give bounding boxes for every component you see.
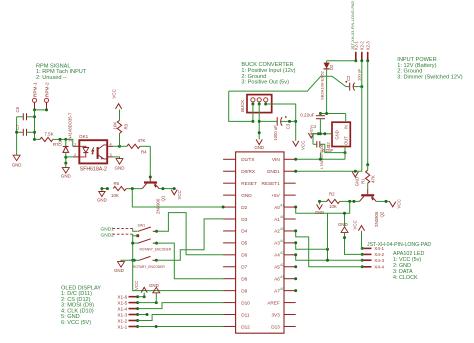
wire regulator GND row xyxy=(311,133,332,135)
svg-text:R2: R2 xyxy=(329,192,335,197)
svg-text:IN: IN xyxy=(344,125,349,129)
svg-text:A3: A3 xyxy=(274,241,280,246)
buck pin 1 xyxy=(251,98,255,102)
svg-text:VCC: VCC xyxy=(301,141,306,150)
svg-text:A7: A7 xyxy=(274,288,280,293)
svg-text:GND1: GND1 xyxy=(101,226,115,232)
svg-text:Q1: Q1 xyxy=(161,195,166,201)
rotary encoder common xyxy=(136,234,139,237)
connector pin X4-3 xyxy=(364,259,372,261)
svg-text:R1: R1 xyxy=(361,178,366,184)
connector pin X1-6 xyxy=(129,296,138,298)
svg-text:D3: D3 xyxy=(241,217,247,222)
wire left cap rail xyxy=(16,117,18,155)
IC pin GND1 xyxy=(284,170,296,172)
svg-text:3: Dimmer (Switched 12V): 3: Dimmer (Switched 12V) xyxy=(397,74,462,80)
capacitor C7 xyxy=(22,129,24,136)
svg-text:GND: GND xyxy=(338,222,348,227)
ground at X1-5 xyxy=(138,302,157,304)
svg-text:2N3906: 2N3906 xyxy=(374,211,379,227)
wire X2-2 ground rail xyxy=(296,61,362,172)
IC pin A1 xyxy=(284,218,296,220)
buck pin 2 xyxy=(257,98,261,102)
svg-text:0.1uF: 0.1uF xyxy=(322,148,334,153)
resistor R1 47K xyxy=(367,165,369,170)
svg-text:X2-3: X2-3 xyxy=(366,41,371,51)
connector pin X1-2 xyxy=(129,320,138,322)
svg-text:A6: A6 xyxy=(274,277,280,282)
voltage regulator U$2 L78L05 box xyxy=(332,122,350,146)
wire RPM pins tie xyxy=(35,109,47,111)
resistor R7 7.5K xyxy=(35,138,41,140)
wire 5V rail to VIN xyxy=(296,158,345,160)
buck pin 3 xyxy=(264,98,268,102)
svg-text:VCC: VCC xyxy=(397,199,402,208)
svg-text:C6: C6 xyxy=(15,106,20,112)
svg-text:R3: R3 xyxy=(123,123,128,129)
connector pin X4-2 xyxy=(364,253,372,255)
svg-text:GND2: GND2 xyxy=(101,232,115,238)
ground at encoder xyxy=(121,260,134,261)
svg-text:D4: D4 xyxy=(241,229,247,234)
svg-text:D11: D11 xyxy=(241,312,250,317)
ground on X2-2 rail xyxy=(352,172,358,177)
svg-text:D12: D12 xyxy=(241,324,250,329)
wire encoder button to D3 xyxy=(156,219,223,260)
svg-text:D9: D9 xyxy=(241,288,247,293)
transistor Q2 2N3906 xyxy=(367,189,369,194)
resistor R6 10K at Q1 xyxy=(102,188,108,190)
svg-text:X4-4: X4-4 xyxy=(374,265,384,270)
svg-text:+5V: +5V xyxy=(271,193,280,198)
optocoupler OK1 SFH618A-2 box xyxy=(79,140,107,163)
OK1 internal phototransistor xyxy=(97,147,99,159)
svg-text:A5: A5 xyxy=(274,265,280,270)
OK1 internal LED xyxy=(79,145,86,148)
svg-text:3V3: 3V3 xyxy=(271,312,280,317)
ground at regulator xyxy=(308,133,314,138)
connector pin X2-2 xyxy=(361,52,363,61)
svg-text:C4: C4 xyxy=(311,124,317,129)
svg-text:1N4148DO35-7: 1N4148DO35-7 xyxy=(68,112,73,142)
svg-text:GND: GND xyxy=(97,197,107,202)
wire buck pin1 to 12V rail xyxy=(252,104,254,121)
svg-text:D1/TX: D1/TX xyxy=(241,157,255,162)
svg-text:X1-4: X1-4 xyxy=(117,306,127,311)
connector pin X1-4 xyxy=(129,308,138,310)
svg-text:D7: D7 xyxy=(241,265,247,270)
wire OK1 pin2 to D1 node xyxy=(66,156,73,158)
IC pin A5 xyxy=(284,266,296,268)
svg-text:3: 3 xyxy=(110,153,112,157)
svg-text:VCC: VCC xyxy=(111,89,116,98)
IC pin +5V xyxy=(284,194,296,196)
svg-text:OK1: OK1 xyxy=(79,134,89,139)
connector pin RPM-2 xyxy=(44,98,48,102)
svg-text:A0: A0 xyxy=(274,205,280,210)
svg-text:SB2H100-E3/52: SB2H100-E3/52 xyxy=(319,70,324,100)
svg-text:A4: A4 xyxy=(274,253,280,258)
svg-text:A5: A5 xyxy=(280,227,284,231)
IC pin VIN xyxy=(284,158,296,160)
wire encoder B to D8 xyxy=(157,243,224,279)
svg-text:D0/RX: D0/RX xyxy=(241,169,256,174)
svg-text:A0: A0 xyxy=(280,287,284,291)
IC pin RESET xyxy=(223,182,236,184)
wire OK1 pin4 node xyxy=(113,145,119,147)
IC pin D2 xyxy=(223,206,236,208)
svg-text:D5: D5 xyxy=(241,241,247,246)
svg-text:VCC: VCC xyxy=(134,281,139,290)
svg-text:SW1: SW1 xyxy=(138,223,146,227)
wire D2 to regulator input xyxy=(326,76,328,113)
svg-text:7.5K: 7.5K xyxy=(44,131,53,136)
svg-text:ROTARY_ENCODER: ROTARY_ENCODER xyxy=(140,248,172,252)
svg-text:D13: D13 xyxy=(271,324,280,329)
svg-text:GND: GND xyxy=(149,283,159,288)
svg-text:GND: GND xyxy=(315,210,324,215)
svg-text:GND: GND xyxy=(61,173,71,178)
wire buck pin3 5V out xyxy=(266,104,296,141)
IC pin D0/RX xyxy=(223,170,236,172)
wire A6 stub dot xyxy=(294,277,297,280)
svg-text:4: 4 xyxy=(110,142,112,146)
svg-text:A6: A6 xyxy=(280,215,284,219)
svg-text:C2: C2 xyxy=(346,75,351,81)
svg-text:RESET: RESET xyxy=(241,181,257,186)
IC pin D6 xyxy=(223,254,236,256)
svg-text:A1: A1 xyxy=(280,275,284,279)
OK1 internal light bolt xyxy=(92,147,94,154)
rotary encoder SW1 pole B xyxy=(138,239,151,243)
wire X1-4 to D10 xyxy=(138,303,224,309)
IC pin 3V3 xyxy=(284,314,296,316)
capacitor C5 0.1uF xyxy=(316,141,318,147)
capacitor C3 1000uF xyxy=(259,120,277,122)
svg-text:RPM-2: RPM-2 xyxy=(45,82,50,97)
connector pin X4-1 xyxy=(364,247,372,249)
wire A0 to junction cluster xyxy=(296,207,328,213)
VCC at X1-6 xyxy=(138,296,145,298)
wire X1-2 to D11 xyxy=(138,315,224,321)
resistor R3 10K pullup xyxy=(119,110,121,121)
svg-text:AREF: AREF xyxy=(267,300,280,305)
capacitor C6 xyxy=(22,113,24,120)
svg-text:GND: GND xyxy=(12,162,22,167)
wire Q2 base tap down xyxy=(328,201,350,213)
wire A7 stub dot xyxy=(294,289,297,292)
IC pin A0 xyxy=(284,206,296,208)
VCC from buck output xyxy=(293,141,299,146)
IC pin RESET1 xyxy=(284,182,296,184)
wire A2 to X4-4 clock xyxy=(296,231,363,267)
svg-text:A7: A7 xyxy=(280,203,284,207)
svg-text:D8: D8 xyxy=(241,277,247,282)
wire regulator IN xyxy=(345,114,347,123)
connector pin X2-3 xyxy=(367,52,369,61)
wire upper stub to ground symbol xyxy=(344,213,346,227)
VCC at Q1 xyxy=(171,190,177,195)
capacitor C2 100uF xyxy=(349,83,351,91)
wire RPM vertical xyxy=(34,110,36,139)
diode D1 1N4148DO35-7 xyxy=(65,139,67,146)
wire X1-3 stub xyxy=(138,314,147,316)
wire Q1 collector rail to D2 xyxy=(132,189,223,207)
connector pin X1-5 xyxy=(129,302,138,304)
svg-text:VCC: VCC xyxy=(352,220,357,229)
connector pin X2-1 xyxy=(355,52,357,61)
svg-text:A2: A2 xyxy=(274,229,280,234)
IC pin D5 xyxy=(223,242,236,244)
IC pin D11 xyxy=(223,314,236,316)
svg-text:BUCK: BUCK xyxy=(240,100,245,112)
svg-text:X1-5: X1-5 xyxy=(117,300,127,305)
IC pin A2 xyxy=(284,230,296,232)
svg-text:GND: GND xyxy=(241,193,252,198)
VCC at Q2 xyxy=(390,202,396,207)
OK1 pin stubs and numbers xyxy=(73,145,79,147)
svg-text:GND: GND xyxy=(254,145,264,150)
wire 12V feed rail xyxy=(229,91,253,121)
svg-text:X4-1: X4-1 xyxy=(374,246,384,251)
IC pin D9 xyxy=(223,290,236,292)
svg-text:4: CLOCK: 4: CLOCK xyxy=(393,275,418,281)
resistor R2 10K xyxy=(320,200,327,202)
connector pin X1-1 xyxy=(129,326,138,328)
svg-text:X2-2: X2-2 xyxy=(360,41,365,51)
wire A4 join xyxy=(296,255,328,260)
IC pin D4 xyxy=(223,230,236,232)
svg-text:C7: C7 xyxy=(15,124,20,130)
wire A5 stub dot xyxy=(294,265,297,268)
IC pin A7 xyxy=(284,290,296,292)
IC U1 Arduino Nano box xyxy=(236,152,284,333)
wire A3 to X4-3 data xyxy=(296,243,363,260)
buck module connector X3 box xyxy=(247,95,272,113)
svg-text:VCC: VCC xyxy=(177,190,182,199)
svg-text:OUT: OUT xyxy=(344,136,349,145)
svg-text:SFH618A-2: SFH618A-2 xyxy=(80,166,107,172)
svg-text:1000 uF: 1000 uF xyxy=(273,125,278,141)
svg-text:GND1: GND1 xyxy=(267,169,280,174)
svg-text:A2: A2 xyxy=(280,263,284,267)
svg-text:2: 2 xyxy=(74,153,76,157)
ground at R6 xyxy=(101,189,103,192)
svg-text:GND: GND xyxy=(115,166,125,171)
IC pin D1/TX xyxy=(223,158,236,160)
wire D2 to C2 xyxy=(327,76,350,86)
IC pin D13 xyxy=(284,325,296,327)
svg-text:10K: 10K xyxy=(111,193,119,198)
svg-text:X2-1: X2-1 xyxy=(354,41,359,51)
svg-text:47K: 47K xyxy=(371,175,376,183)
svg-text:RESET1: RESET1 xyxy=(262,181,281,186)
wire R7 to OK1 pin1 xyxy=(66,139,73,146)
wire OK1 pin3 to ground xyxy=(113,157,119,159)
wire encoder common to D9 xyxy=(133,260,223,290)
ground below C7 xyxy=(13,155,20,161)
svg-text:Q2: Q2 xyxy=(380,211,385,217)
connector pin X1-3 xyxy=(129,314,138,316)
IC pin AREF xyxy=(284,302,296,304)
svg-text:X4-2: X4-2 xyxy=(374,252,384,257)
IC pin D8 xyxy=(223,278,236,280)
svg-text:100 uF: 100 uF xyxy=(357,68,362,81)
IC pin D12 xyxy=(223,325,236,327)
svg-text:D2: D2 xyxy=(241,205,247,210)
wire buck pin2 ground xyxy=(258,104,260,139)
svg-text:X1-1: X1-1 xyxy=(117,324,127,329)
svg-text:1: 1 xyxy=(74,142,76,146)
svg-text:GND: GND xyxy=(334,130,339,139)
svg-text:A4: A4 xyxy=(280,239,284,243)
svg-text:A1: A1 xyxy=(274,217,280,222)
transistor Q1 2N3906 xyxy=(149,177,151,181)
svg-text:3: Positive Out (5v): 3: Positive Out (5v) xyxy=(241,80,289,86)
svg-text:X1-6: X1-6 xyxy=(117,295,127,300)
svg-text:6: VCC (5V): 6: VCC (5V) xyxy=(61,320,91,326)
diode D2 SB2H100 xyxy=(324,63,330,69)
ground below D1 xyxy=(65,163,67,168)
svg-text:GND: GND xyxy=(114,268,124,273)
wire X2-3 dimmer rail xyxy=(367,61,369,165)
ground at R2 xyxy=(319,201,321,204)
svg-text:10K: 10K xyxy=(113,122,118,130)
IC pin GND xyxy=(223,194,236,196)
rotary encoder push button xyxy=(133,259,139,261)
svg-text:D2: D2 xyxy=(329,64,334,70)
svg-text:R6: R6 xyxy=(114,181,120,186)
svg-text:C3: C3 xyxy=(286,123,291,129)
svg-text:X1-2: X1-2 xyxy=(117,318,127,323)
wire Q1 emitter to VCC xyxy=(159,188,174,190)
IC pin D10 xyxy=(223,302,236,304)
svg-text:GND: GND xyxy=(355,177,360,186)
IC pin D7 xyxy=(223,266,236,268)
svg-text:D10: D10 xyxy=(241,300,250,305)
svg-text:R4: R4 xyxy=(141,150,147,155)
wire X1-1 to D12 xyxy=(138,326,224,328)
IC pin A4 xyxy=(284,254,296,256)
IC pin A6 xyxy=(284,278,296,280)
svg-text:D1: D1 xyxy=(58,140,63,146)
IC pin D3 xyxy=(223,218,236,220)
svg-text:47K: 47K xyxy=(138,138,146,143)
resistor R4 47K xyxy=(120,145,128,147)
VCC above R3 xyxy=(116,104,122,109)
svg-text:A3: A3 xyxy=(280,251,284,255)
connector pin RPM-1 xyxy=(32,98,36,102)
svg-text:D6: D6 xyxy=(241,253,247,258)
connector pin X4-4 xyxy=(364,266,372,268)
svg-text:0.22uF: 0.22uF xyxy=(300,112,314,117)
wire regulator OUT to rail xyxy=(344,147,346,160)
wire Q2 emitter to VCC xyxy=(376,200,390,202)
wire R4 to Q1 base xyxy=(149,146,151,177)
VCC at X4-1 xyxy=(361,231,364,249)
svg-text:ROTARY_ENCODER: ROTARY_ENCODER xyxy=(133,265,165,269)
svg-text:2: Unused --: 2: Unused -- xyxy=(36,75,67,81)
svg-text:10K: 10K xyxy=(329,204,337,209)
wire encoder A to D6 xyxy=(157,213,224,255)
wire 12V from X2-1 to D2 xyxy=(327,60,356,62)
svg-text:RPM-1: RPM-1 xyxy=(33,82,38,97)
svg-text:X1-3: X1-3 xyxy=(117,312,127,317)
svg-text:X4-3: X4-3 xyxy=(374,258,384,263)
IC pin A3 xyxy=(284,242,296,244)
svg-text:VIN: VIN xyxy=(272,157,280,162)
